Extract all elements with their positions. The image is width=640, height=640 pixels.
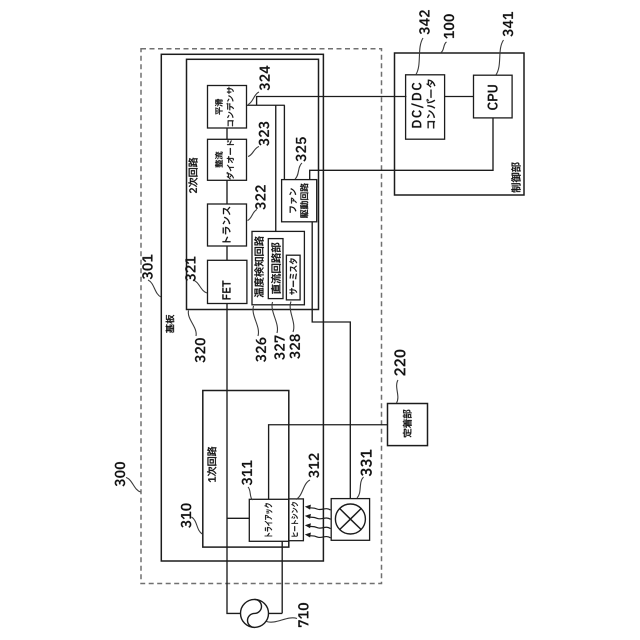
leader 321 bbox=[193, 280, 207, 293]
label ヒートシンク bbox=[291, 502, 298, 536]
label 平滑コンデンサ bbox=[215, 87, 234, 126]
label トライアック bbox=[265, 503, 273, 536]
leader 301 bbox=[148, 280, 161, 297]
leader 710 bbox=[267, 618, 298, 622]
label 整流ダイオード bbox=[215, 140, 234, 179]
label ref710 bbox=[298, 603, 308, 627]
FET 321 bbox=[208, 260, 247, 303]
leader 310 bbox=[192, 517, 203, 534]
wire: capacitor-diode-transformer-FET chain down to AC source bbox=[227, 128, 241, 613]
label ref300 bbox=[115, 462, 125, 486]
label ref342 bbox=[419, 10, 429, 34]
wire: fan drive circuit to fan bbox=[312, 222, 350, 499]
label ref312 bbox=[309, 454, 319, 478]
leader 220 bbox=[397, 380, 399, 403]
leader 325 bbox=[295, 163, 302, 179]
label ref321 bbox=[185, 257, 195, 282]
label CPU bbox=[488, 85, 498, 110]
heat flow arrows from heatsink toward fan bbox=[305, 505, 331, 538]
fixing unit 220 (定着部) bbox=[388, 404, 428, 446]
thermistor 328 (サーミスタ) bbox=[286, 255, 300, 300]
AC source 710 symbol bbox=[241, 599, 269, 627]
wire: CPU to fan drive circuit control bbox=[310, 118, 493, 180]
label ref320 bbox=[195, 338, 205, 362]
smoothing capacitor 324 (平滑コンデンサ) bbox=[208, 86, 247, 129]
label 基板 bbox=[166, 315, 175, 333]
label 温度検知回路 bbox=[254, 236, 264, 297]
leader 322 bbox=[248, 210, 258, 221]
label ref310 bbox=[181, 504, 191, 528]
leader 312 bbox=[296, 480, 310, 500]
label ref311 bbox=[242, 461, 252, 486]
wire: fixing unit to triac bbox=[269, 425, 388, 500]
label トランス bbox=[223, 207, 231, 242]
DC/DC converter 342 bbox=[406, 75, 445, 139]
label ref341 bbox=[503, 12, 513, 37]
secondary circuit block 320 (2次回路) bbox=[187, 59, 319, 309]
text labels as vector paths bbox=[115, 10, 521, 627]
label サーミスタ bbox=[289, 258, 297, 294]
leader 323 bbox=[248, 147, 259, 157]
leader 331 bbox=[357, 477, 364, 498]
dashed enclosure 300 (power supply unit) bbox=[141, 49, 382, 584]
leader 324 bbox=[248, 92, 259, 105]
label コンバータ bbox=[426, 80, 435, 129]
label ref322 bbox=[255, 185, 265, 209]
leader 300 bbox=[126, 478, 141, 493]
temperature detection circuit 326 (温度検知回路) bbox=[252, 231, 304, 304]
label 2次回路 bbox=[188, 158, 197, 193]
label DC-DC bbox=[412, 83, 424, 128]
fan drive circuit 325 (ファン駆動回路) bbox=[282, 180, 317, 222]
label ref323 bbox=[259, 122, 269, 146]
triac 311 (トライアック) bbox=[249, 499, 288, 541]
DC circuit part 327 (直流回路部) bbox=[268, 239, 283, 299]
label 定着部 bbox=[403, 410, 412, 438]
leader 311 bbox=[248, 487, 253, 500]
fan 331 housing bbox=[331, 499, 369, 541]
leader 327 bbox=[272, 302, 277, 333]
transformer 322 (トランス) bbox=[208, 204, 247, 246]
label ref328 bbox=[290, 334, 300, 358]
wire: branch to triac gate side bbox=[227, 517, 249, 519]
label 制御部 bbox=[511, 163, 521, 193]
wire: triac bottom down to AC source right side bbox=[269, 541, 283, 613]
CPU 341 bbox=[474, 75, 513, 118]
heatsink 312 (ヒートシンク) bbox=[289, 499, 304, 541]
leader 326 bbox=[253, 306, 258, 336]
label ref326 bbox=[256, 338, 266, 362]
label 1次回路 bbox=[207, 447, 216, 483]
label ref327 bbox=[274, 336, 284, 360]
label ref220 bbox=[394, 350, 405, 376]
controller 100 (制御部) bbox=[395, 53, 525, 195]
wire: down to temperature detection circuit bbox=[275, 105, 277, 231]
wire: down to fan drive circuit bbox=[283, 105, 285, 179]
label ref325 bbox=[296, 137, 306, 161]
wire: capacitor output bus bbox=[247, 104, 285, 106]
label ref301 bbox=[142, 255, 152, 279]
leader 341 bbox=[496, 40, 504, 75]
label ref100 bbox=[444, 14, 454, 38]
wire: DC/DC to CPU bbox=[445, 96, 474, 98]
label ref324 bbox=[260, 66, 270, 91]
board 301 (基板) bbox=[161, 54, 323, 561]
primary circuit 310 (1次回路) bbox=[203, 391, 289, 548]
label ref331 bbox=[361, 450, 372, 476]
label 直流回路部 bbox=[271, 243, 281, 294]
label FET bbox=[222, 281, 230, 300]
label ファン駆動回路 bbox=[289, 183, 308, 218]
leader 320 bbox=[188, 311, 196, 337]
leader squiggles bbox=[126, 38, 504, 622]
leader 100 bbox=[441, 42, 447, 53]
rectifier diode 323 (整流ダイオード) bbox=[208, 139, 247, 180]
leader 328 bbox=[290, 302, 294, 333]
fan 331 blades bbox=[335, 504, 365, 534]
wire: jog up to DC/DC feed bbox=[257, 97, 407, 106]
leader 342 bbox=[416, 38, 423, 75]
